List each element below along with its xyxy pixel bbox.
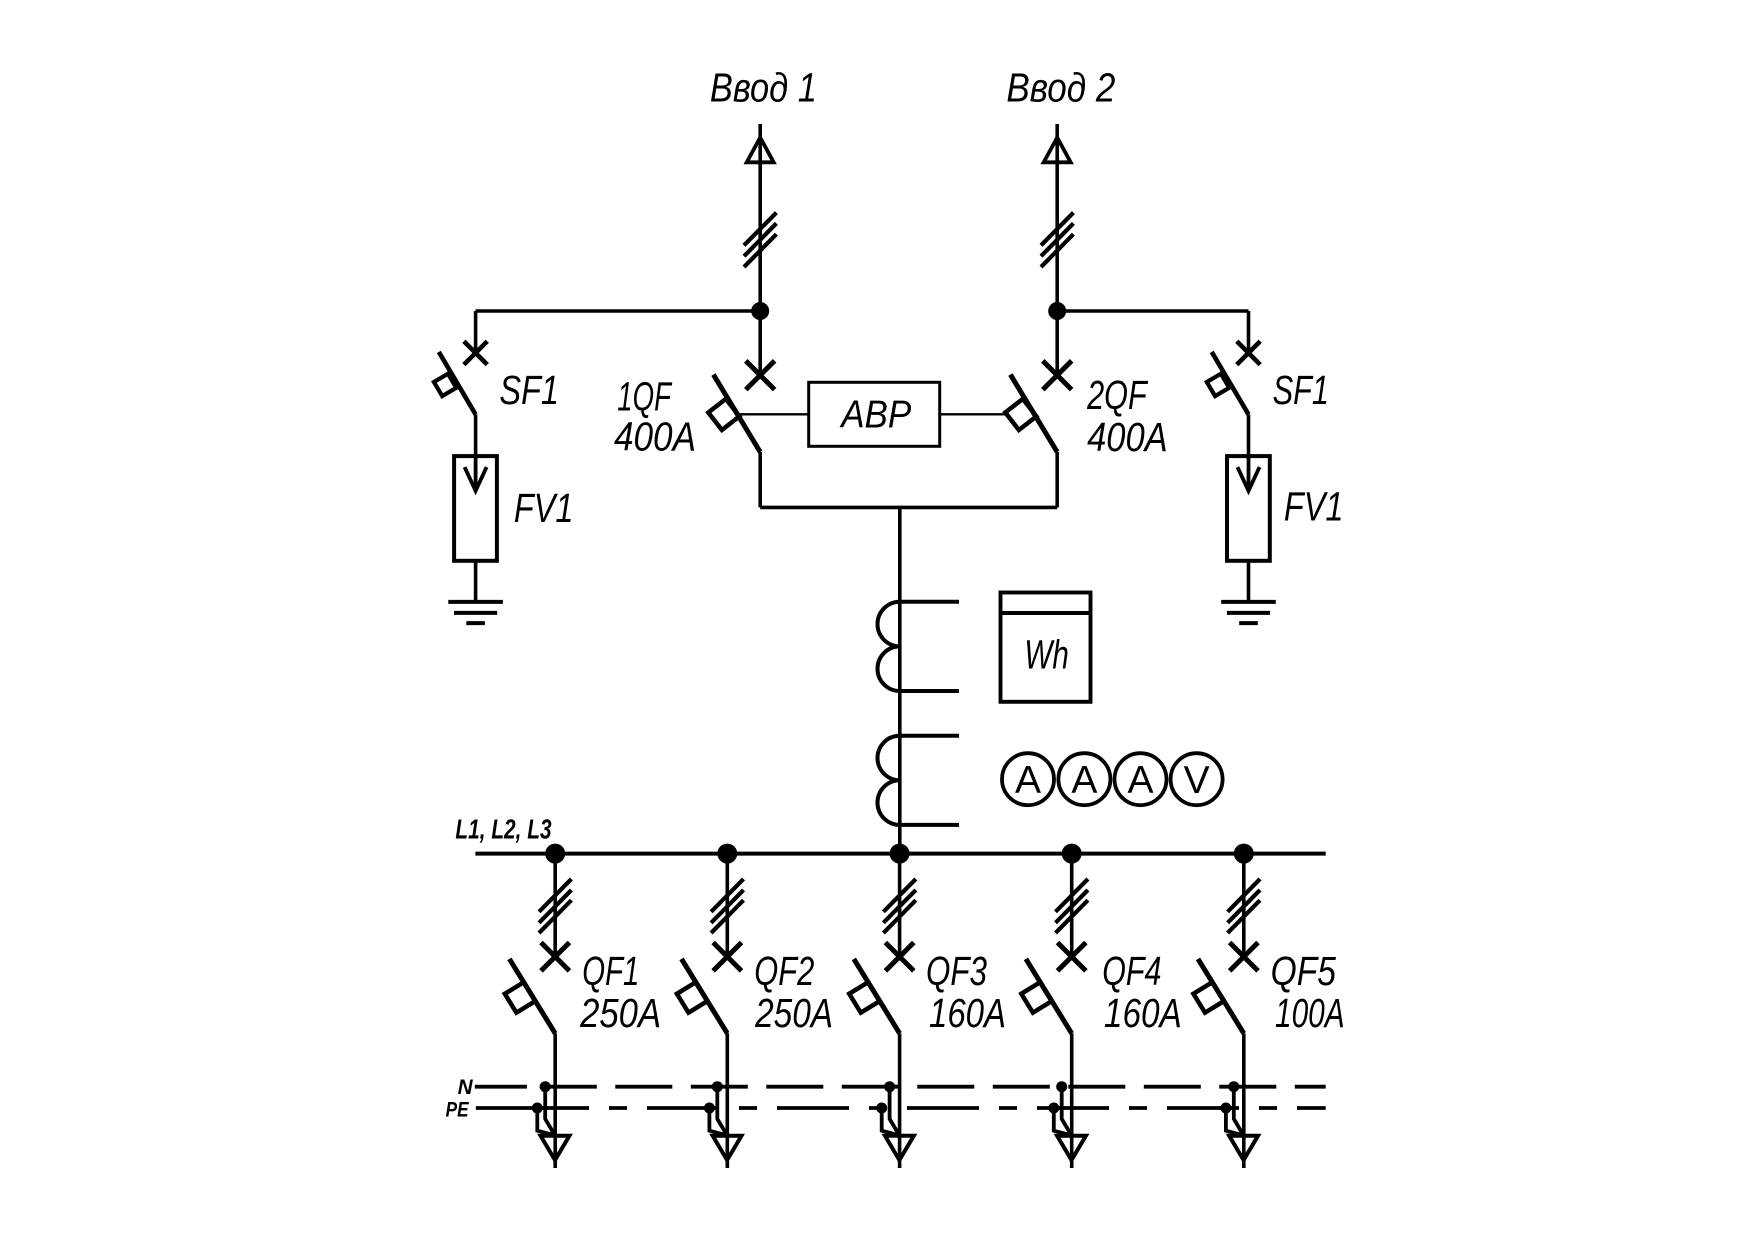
svg-text:FV1: FV1 [1284,483,1344,529]
svg-text:V: V [1184,759,1210,802]
svg-text:100A: 100A [1275,990,1345,1036]
wire АВР to 2QF [940,413,1006,415]
voltmeter PV [1171,753,1223,805]
svg-text:PE: PE [446,1098,470,1121]
svg-text:160A: 160A [929,990,1006,1036]
svg-text:QF3: QF3 [926,948,987,994]
svg-text:400A: 400A [614,414,696,460]
feeder breaker QF1 (node, slashes, contact, blade, taps, cable arrow) [505,844,572,1168]
svg-text:FV1: FV1 [514,485,574,531]
svg-text:250A: 250A [754,990,833,1036]
svg-text:A: A [1071,759,1097,802]
svg-text:QF2: QF2 [754,948,814,994]
svg-text:SF1: SF1 [499,367,559,413]
svg-text:QF1: QF1 [582,948,639,994]
svg-text:N: N [458,1076,474,1099]
ammeter PA2 [1058,753,1110,805]
ATS control box АВР [809,382,940,446]
feeder breaker QF3 (node, slashes, contact, blade, taps, cable arrow) [849,844,916,1168]
svg-text:Wh: Wh [1024,632,1068,678]
current transformer winding TA lower [878,736,960,825]
ammeter PA1 [1002,753,1054,805]
current transformer winding TA upper [878,602,960,691]
svg-text:A: A [1015,759,1041,802]
energy meter Wh box [1001,593,1091,702]
svg-text:Ввод 2: Ввод 2 [1006,64,1115,110]
bus PE dash-dot line [517,1106,1326,1110]
switch SF1 + arrester FV1 + ground (right) [1207,311,1276,623]
svg-text:160A: 160A [1104,990,1182,1036]
svg-text:A: A [1127,759,1153,802]
feeder breaker QF2 (node, slashes, contact, blade, taps, cable arrow) [677,844,744,1168]
bus N dashed line [540,1085,1326,1089]
main bus L1,L2,L3 [475,852,1325,856]
svg-text:QF4: QF4 [1102,948,1161,994]
switch SF1 + arrester FV1 + ground (left) [434,311,503,623]
wire center drop to main bus [898,507,902,853]
input branch Ввод 2 (supply arrow, slashes, node, contact, breaker 2QF blade) [1005,124,1073,507]
svg-text:2QF: 2QF [1086,372,1148,418]
svg-text:L1, L2, L3: L1, L2, L3 [455,814,552,845]
wire node 1 to left SF1 [476,309,761,313]
feeder breaker QF4 (node, slashes, contact, blade, taps, cable arrow) [1021,844,1088,1168]
bus PE first dash [476,1106,517,1110]
svg-text:QF5: QF5 [1271,948,1336,994]
svg-text:Ввод 1: Ввод 1 [710,64,817,110]
ammeter PA3 [1115,753,1167,805]
svg-text:АВР: АВР [839,393,911,436]
input branch Ввод 1 (supply arrow, slashes, node, contact, breaker 1QF blade) [708,124,776,507]
wire node 2 to right SF1 [1057,309,1248,313]
svg-text:SF1: SF1 [1273,367,1329,413]
wire tie bus below input breakers [760,506,1057,510]
wire АВР to 1QF [739,413,808,415]
bus N first dash [475,1085,527,1089]
svg-text:250A: 250A [579,990,661,1036]
svg-text:400A: 400A [1087,414,1168,460]
feeder breaker QF5 (node, slashes, contact, blade, taps, cable arrow) [1193,844,1260,1168]
